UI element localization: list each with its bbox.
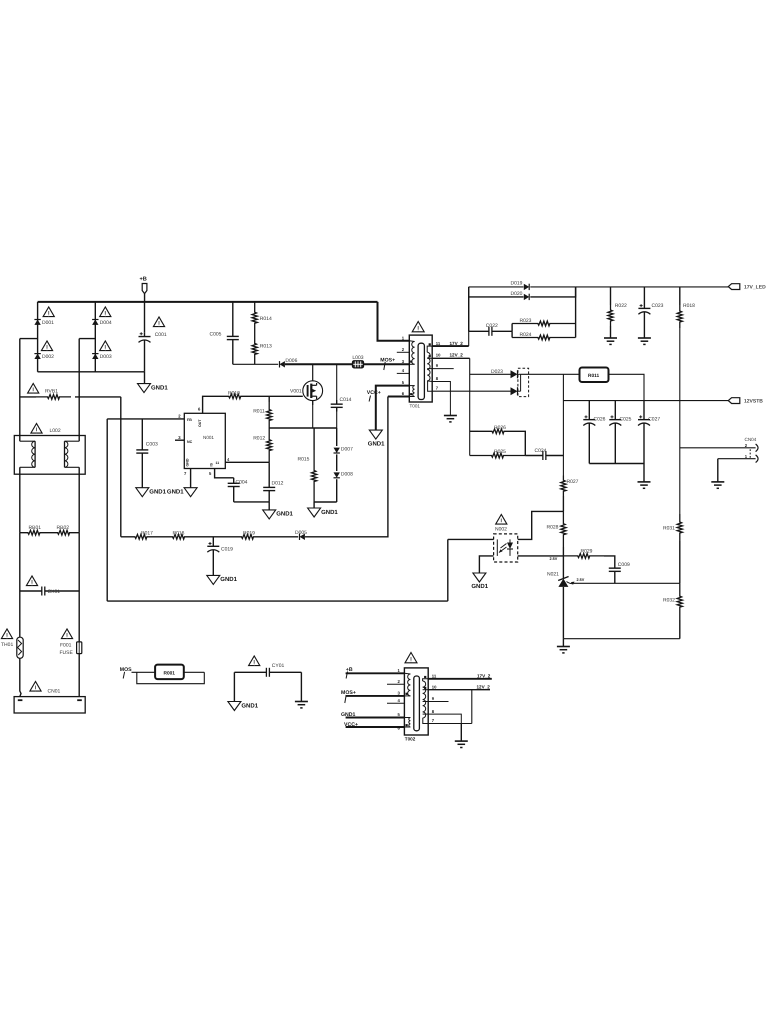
svg-text:RB02: RB02 <box>57 525 70 531</box>
ground GND1 under D012 <box>268 502 270 510</box>
svg-text:C024: C024 <box>535 448 547 454</box>
wire C014 to D007 <box>336 428 338 446</box>
diode D023 dual <box>511 370 518 378</box>
capacitor C004 <box>233 478 235 484</box>
svg-text:17V_LED: 17V_LED <box>744 285 766 291</box>
svg-text:12V_2: 12V_2 <box>450 353 464 358</box>
svg-text:11: 11 <box>216 461 220 465</box>
T001 pin2 stub <box>397 351 410 353</box>
diode D004 <box>100 307 111 317</box>
resistor R013 <box>252 334 257 365</box>
wire R010 to gate <box>248 395 303 397</box>
ground earth right of CY01 <box>295 701 308 703</box>
wire 17V rail <box>576 286 729 288</box>
capacitor C023 <box>643 287 645 304</box>
svg-text:+B: +B <box>140 277 147 283</box>
wire D005 to VCC riser <box>305 397 388 537</box>
wire to C019 junction <box>196 536 232 538</box>
svg-text:F001: F001 <box>60 642 72 648</box>
capacitor CX01 <box>26 576 37 586</box>
T002 pin4 stub <box>387 702 404 704</box>
ground GND1 under R015 <box>313 502 315 508</box>
svg-text:R011: R011 <box>588 373 600 379</box>
diode D008 <box>334 472 340 477</box>
wire C022 branch <box>468 297 470 331</box>
wire CY01 right to earth <box>300 672 302 701</box>
wire T002 ground drop <box>460 724 462 742</box>
ground GND1 big under T001 pin5 <box>369 430 382 439</box>
wire D020 branch <box>468 287 470 297</box>
svg-text:T001: T001 <box>410 404 421 409</box>
resistor R027 <box>561 476 566 497</box>
wire R001 parallel loop <box>184 671 205 673</box>
T001 pin11 net 17V_2 <box>432 345 469 347</box>
ground under T001 pin8 <box>444 415 457 417</box>
T002 pin11 net 17V_2 <box>428 678 492 680</box>
svg-text:R031: R031 <box>663 526 675 532</box>
resistor R012 <box>267 428 272 462</box>
svg-text:C019: C019 <box>221 547 233 553</box>
svg-text:+B: +B <box>346 667 353 673</box>
diode D006 <box>280 361 285 367</box>
wire bridge right leg <box>94 302 96 372</box>
svg-text:D007: D007 <box>341 447 353 453</box>
ground GND1 under CY01 <box>228 702 241 711</box>
wire C005 to D006 <box>233 363 278 365</box>
resistor R024 snubber <box>511 331 513 337</box>
svg-text:R022: R022 <box>615 303 627 309</box>
wire 12VSTB rail <box>563 400 728 402</box>
svg-text:R018: R018 <box>683 303 695 309</box>
svg-text:TH01: TH01 <box>1 642 13 648</box>
svg-text:R028: R028 <box>547 525 559 531</box>
wire L011 out <box>609 374 645 400</box>
svg-text:D020: D020 <box>511 291 523 297</box>
wire snubber join <box>575 287 577 338</box>
resistor R010 <box>222 394 249 399</box>
wire C004-D012 ground rail <box>234 501 270 503</box>
svg-text:CY01: CY01 <box>272 663 285 669</box>
svg-text:L003: L003 <box>352 355 363 361</box>
resistor R025 <box>470 453 526 458</box>
svg-text:CX01: CX01 <box>48 589 61 595</box>
capacitor C009 <box>614 564 616 569</box>
svg-text:GND1: GND1 <box>151 384 168 391</box>
resistor R028 <box>561 511 566 547</box>
capacitor CY01 <box>249 656 260 666</box>
svg-text:10: 10 <box>432 684 437 689</box>
T001 pin10 net 12V_2 <box>432 357 470 359</box>
svg-text:R014: R014 <box>260 316 272 322</box>
wire FB loop bottom <box>107 600 448 602</box>
ground under C023 <box>638 337 651 339</box>
inductor L011 block <box>580 368 609 383</box>
wire left leg below L002 <box>19 467 21 532</box>
wire D023 node vertical <box>562 374 564 475</box>
ground GND1 under C001 <box>144 372 146 384</box>
svg-text:2.5V: 2.5V <box>550 557 558 561</box>
power flag +B <box>142 284 147 294</box>
wire AC left leg down <box>19 339 21 442</box>
resistor RB01 <box>20 530 48 535</box>
wire divider bottom <box>563 638 679 640</box>
svg-text:D001: D001 <box>42 320 54 326</box>
resistor R022 <box>610 287 612 305</box>
diode D002 <box>41 341 52 351</box>
ground under divider <box>557 646 570 648</box>
T001 left aux winding pins5-6 <box>413 386 415 397</box>
capacitor C024 <box>525 455 543 457</box>
wire N001 OUT riser <box>203 396 222 413</box>
wire D007-D008 <box>336 454 338 471</box>
wire D019 out <box>530 286 575 288</box>
capacitor C025 <box>614 401 616 416</box>
capacitor C005 <box>232 302 234 334</box>
svg-text:D008: D008 <box>341 471 353 477</box>
T001 pin9 stub <box>432 368 454 370</box>
svg-text:GND1: GND1 <box>241 702 258 709</box>
resistor R023 snubber <box>511 324 513 332</box>
svg-text:12V_2: 12V_2 <box>477 684 491 689</box>
ground GND1 under C019 <box>207 575 220 584</box>
svg-text:C004: C004 <box>236 479 248 485</box>
svg-text:C027: C027 <box>648 417 660 423</box>
T001 pin4 stub <box>397 372 410 374</box>
T002 pin8 wire <box>428 714 461 723</box>
svg-text:D002: D002 <box>42 354 54 360</box>
svg-text:N021: N021 <box>547 572 559 578</box>
wire AC right leg down <box>78 339 80 442</box>
svg-text:IS: IS <box>210 463 214 467</box>
svg-text:R016: R016 <box>173 530 185 536</box>
svg-text:C023: C023 <box>652 303 664 309</box>
wire D019 branch <box>469 286 524 288</box>
svg-text:T002: T002 <box>405 737 416 742</box>
ground GND1 under C003 <box>136 488 149 497</box>
transistor V001 MOSFET <box>312 364 314 381</box>
svg-text:FB: FB <box>187 418 192 422</box>
T002 pin10 net 12V_2 <box>428 689 490 691</box>
diode D020 <box>524 294 529 300</box>
thermistor TH01 <box>1 629 12 639</box>
wire MOS to R001 <box>132 671 156 673</box>
T002 pin2 stub <box>387 683 404 685</box>
capacitor C027 <box>643 401 645 416</box>
svg-text:C003: C003 <box>146 441 158 447</box>
resistor R001 block <box>155 665 184 680</box>
fuse F001 <box>61 629 72 639</box>
svg-text:R011: R011 <box>253 409 265 415</box>
connector 12VSTB <box>728 398 740 404</box>
wire FB loop left vertical <box>106 419 108 601</box>
transformer T002 <box>405 653 417 663</box>
resistor R026 <box>470 430 478 432</box>
resistor R031 <box>677 514 682 541</box>
svg-text:RVB1: RVB1 <box>45 388 58 394</box>
wire R018 lower vertical <box>679 328 681 514</box>
svg-text:11: 11 <box>432 674 437 679</box>
resistor R014 <box>252 302 257 334</box>
svg-text:CN01: CN01 <box>48 689 61 695</box>
svg-text:17V_2: 17V_2 <box>450 341 464 346</box>
resistor R015 <box>313 428 315 450</box>
svg-text:R001: R001 <box>164 671 176 677</box>
svg-text:R024: R024 <box>520 332 532 338</box>
wire bridge bottom <box>38 371 145 373</box>
svg-text:R026: R026 <box>494 425 506 431</box>
resistor R019 <box>232 534 263 539</box>
svg-text:R017: R017 <box>141 530 153 536</box>
inductor L003 ferrite bead <box>353 361 364 368</box>
wire +B top bus <box>38 301 378 303</box>
svg-text:R025: R025 <box>494 449 506 455</box>
diode D007 <box>334 448 340 453</box>
svg-text:D005: D005 <box>295 530 307 536</box>
diode D019 <box>524 284 529 290</box>
svg-text:GND1: GND1 <box>321 509 338 516</box>
wire D020 out <box>530 287 575 297</box>
diode D001 <box>43 307 54 317</box>
resistor R016 <box>161 534 196 539</box>
wire RVB1 net riser <box>120 397 122 537</box>
T002 pin9 stub <box>428 701 448 703</box>
svg-text:C005: C005 <box>210 332 222 338</box>
resistor R017 <box>121 534 161 539</box>
svg-text:C001: C001 <box>155 332 167 338</box>
T001 pin7 wire <box>432 390 511 392</box>
wire opto LED cathode <box>518 555 564 557</box>
svg-text:OUT: OUT <box>198 419 202 427</box>
svg-text:2.5V: 2.5V <box>577 578 585 582</box>
resistor R032 <box>677 583 682 620</box>
wire 12V_2 drop <box>471 690 473 724</box>
resistor R029 <box>563 554 604 559</box>
svg-text:GND1: GND1 <box>220 576 237 583</box>
svg-text:RB01: RB01 <box>29 525 42 531</box>
ground under R022 <box>604 337 617 339</box>
capacitor C022 <box>469 330 489 332</box>
wire pin10 drop <box>469 358 471 455</box>
capacitor C019 <box>212 537 214 547</box>
capacitor C026 <box>588 401 590 416</box>
svg-text:VCC+: VCC+ <box>367 390 381 396</box>
svg-text:17V_2: 17V_2 <box>477 674 491 679</box>
wire cap bank bottom <box>589 463 644 465</box>
T001 right winding <box>427 352 430 381</box>
svg-text:R013: R013 <box>260 344 272 350</box>
diode D012 <box>268 462 270 483</box>
wire R027-R028 junction to opto <box>518 511 564 539</box>
svg-text:R015: R015 <box>298 456 310 462</box>
svg-text:GND1: GND1 <box>276 511 293 518</box>
svg-text:C014: C014 <box>340 397 352 403</box>
T001 pin8 to ground <box>432 382 450 416</box>
resistor R018 <box>679 287 681 305</box>
svg-text:L002: L002 <box>50 428 61 434</box>
svg-text:MOS+: MOS+ <box>380 358 395 364</box>
wire T001 pin5 to GND1 <box>376 386 410 431</box>
svg-text:N002: N002 <box>495 527 507 533</box>
T001 pin1 stub <box>397 340 410 342</box>
wire AC input left to bridge <box>20 338 38 340</box>
wire bridge left leg <box>37 302 39 372</box>
wire opto emitter to GND1 <box>479 556 493 573</box>
wire R019 to D005 <box>263 536 298 538</box>
resistor R011 <box>268 396 270 402</box>
svg-text:D004: D004 <box>100 320 112 326</box>
svg-text:R023: R023 <box>520 318 532 324</box>
wire D023 cathode out <box>521 373 580 375</box>
ground under CN04 <box>711 481 724 483</box>
wire R015/D008 ground rail <box>314 501 337 503</box>
wire source node <box>269 427 337 429</box>
wire V001 source to node <box>312 401 314 428</box>
svg-text:GND1: GND1 <box>471 583 488 590</box>
wire F001 to CN01 <box>78 654 80 697</box>
svg-text:12VSTB: 12VSTB <box>744 399 763 405</box>
capacitor C003 <box>141 419 143 447</box>
ground under cap bank <box>638 481 651 483</box>
T002 pin7 bottom wire <box>429 723 472 725</box>
svg-text:D012: D012 <box>272 480 284 486</box>
transformer T001 <box>412 322 424 332</box>
op-amp U1 N001 controller IC <box>184 413 225 468</box>
inductor L002 common mode choke <box>31 423 42 433</box>
svg-text:C022: C022 <box>486 323 498 329</box>
svg-text:R032: R032 <box>663 598 675 604</box>
wire CY01 left to GND1 <box>233 672 235 701</box>
svg-text:NC: NC <box>187 440 193 444</box>
connector 17V_LED <box>728 284 740 290</box>
svg-text:MOS: MOS <box>120 667 132 673</box>
svg-text:R012: R012 <box>253 436 265 442</box>
svg-text:CN04: CN04 <box>745 437 757 442</box>
svg-text:D023: D023 <box>491 369 503 375</box>
wire pin11 riser <box>468 287 470 346</box>
wire VCC+ to T001 pin6 <box>388 396 409 398</box>
varistor RVB1 <box>28 383 39 393</box>
wire TH01 to CN01 <box>20 658 21 696</box>
wire RVB1 to startup riser <box>75 396 121 398</box>
diode D005 <box>300 534 305 540</box>
ground GND1 under N002 <box>473 573 486 582</box>
svg-text:C025: C025 <box>620 417 632 423</box>
svg-text:GND1: GND1 <box>368 440 385 447</box>
optocoupler N002 <box>496 514 507 524</box>
wire AC input right to bridge <box>79 338 95 340</box>
svg-text:N001: N001 <box>203 435 214 440</box>
svg-text:C009: C009 <box>618 562 630 568</box>
wire TL431 ref <box>574 582 680 584</box>
svg-text:GND: GND <box>186 458 190 466</box>
capacitor C001 <box>153 317 164 327</box>
svg-text:R029: R029 <box>581 549 593 555</box>
svg-text:FUSE: FUSE <box>60 650 74 656</box>
diode D003 <box>100 341 111 351</box>
wire FB loop right riser to opto <box>447 539 449 601</box>
ground GND1 under N001 pin7 <box>184 488 197 497</box>
capacitor C014 <box>336 364 338 400</box>
svg-text:GND1: GND1 <box>149 489 166 496</box>
wire R029 to C009 <box>604 556 615 564</box>
svg-text:C026: C026 <box>594 417 606 423</box>
wire bus drop to T001 pin1 <box>378 302 410 341</box>
svg-text:R019: R019 <box>243 530 255 536</box>
wire FB pin2 <box>107 418 184 420</box>
resistor RB02 <box>48 530 79 535</box>
svg-text:R010: R010 <box>228 390 240 396</box>
svg-text:D003: D003 <box>100 354 112 360</box>
wire D023 anode top <box>470 373 512 375</box>
wire D006 to T001 pin3 (MOS+) <box>285 363 353 365</box>
ground under T002 <box>455 740 468 742</box>
svg-text:V001: V001 <box>290 388 302 394</box>
svg-text:R027: R027 <box>567 479 579 485</box>
svg-text:D019: D019 <box>511 281 523 287</box>
svg-text:11: 11 <box>436 341 441 346</box>
connector CN01 <box>30 681 41 691</box>
svg-text:10: 10 <box>436 353 441 358</box>
svg-text:GND1: GND1 <box>167 489 184 496</box>
wire right leg below L002 <box>78 467 80 532</box>
